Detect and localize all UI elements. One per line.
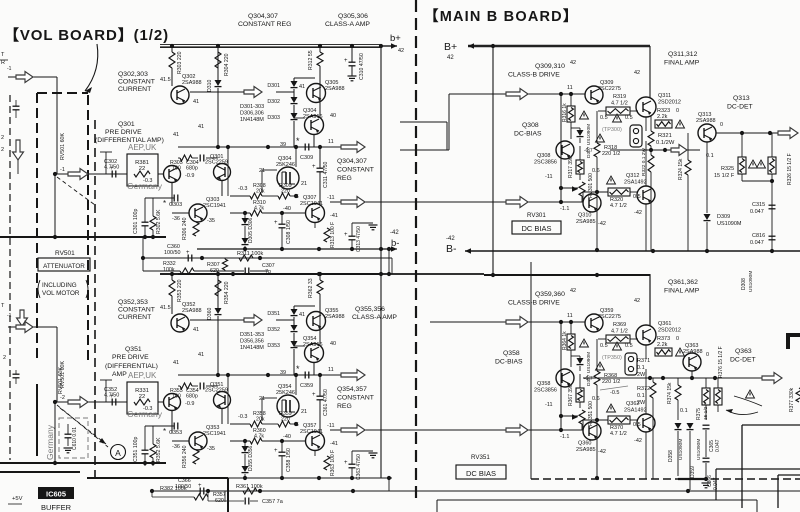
board title MAIN B BOARD — [424, 8, 579, 25]
label -42 B- — [446, 236, 457, 255]
svg-text:CLASS-B DRIVE: CLASS-B DRIVE — [508, 300, 560, 307]
value 0.1 — [706, 153, 714, 159]
value 41 — [193, 327, 199, 333]
label BUFFER — [41, 503, 72, 512]
svg-text:41: 41 — [193, 327, 199, 333]
transistor Q362 — [637, 414, 655, 432]
warning triangle — [746, 390, 755, 398]
transistor Q361 — [636, 325, 656, 345]
value -42 — [634, 210, 642, 216]
junction — [651, 249, 774, 253]
dashed option box — [59, 418, 88, 458]
value 21 — [259, 168, 265, 174]
value 0.5 — [625, 115, 633, 121]
node wiper RV501 — [53, 167, 65, 176]
svg-text:2: 2 — [1, 147, 4, 153]
svg-text:15 1/2 F: 15 1/2 F — [714, 173, 735, 179]
wire block top — [0, 471, 80, 473]
svg-text:+: + — [312, 392, 316, 398]
svg-text:-42: -42 — [598, 221, 606, 227]
potentiometer RV501 60K — [60, 133, 66, 160]
svg-text:100: 100 — [172, 166, 181, 172]
svg-text:220 1/2: 220 1/2 — [602, 151, 620, 157]
svg-text:41.5: 41.5 — [160, 77, 171, 83]
wire lower b- rail — [166, 476, 392, 491]
dashed line RV501 box right — [87, 95, 89, 362]
value 21 — [301, 409, 307, 415]
label Q302 2SA988 — [182, 74, 202, 86]
value 11 — [328, 139, 334, 145]
value 42 — [634, 298, 640, 304]
svg-text:2SA988: 2SA988 — [683, 349, 703, 355]
junction — [713, 376, 717, 380]
svg-text:C309: C309 — [300, 155, 313, 161]
wire — [571, 356, 580, 371]
svg-text:C363 47/50: C363 47/50 — [356, 454, 362, 480]
svg-text:+: + — [344, 232, 348, 238]
svg-text:0.1: 0.1 — [637, 393, 645, 399]
label Q308 2SC3856 — [534, 153, 557, 166]
transistor Q360 — [583, 422, 601, 440]
wire — [145, 198, 153, 238]
resistor R302 5.6K — [150, 209, 162, 234]
svg-text:0.1: 0.1 — [637, 365, 645, 371]
value 11 — [567, 85, 573, 91]
value 41.5 — [160, 77, 171, 83]
svg-text:41: 41 — [299, 312, 305, 318]
svg-text:4.7 1/2: 4.7 1/2 — [611, 101, 628, 107]
signal arrow input — [16, 322, 33, 333]
ground — [369, 225, 378, 230]
pointer arc from title — [85, 44, 98, 93]
wire — [771, 133, 773, 251]
wire — [158, 401, 164, 403]
value -0.3 — [238, 186, 247, 192]
svg-text:42: 42 — [634, 70, 640, 76]
wire — [645, 345, 647, 414]
capacitor C309 — [300, 144, 313, 162]
wire drive input — [430, 321, 585, 323]
resistor R354 220 — [215, 280, 230, 304]
wire — [677, 378, 679, 420]
svg-text:-35: -35 — [207, 446, 215, 452]
signal arrow const reg — [341, 142, 365, 153]
svg-text:0.1/2W: 0.1/2W — [656, 140, 675, 146]
value -42 — [634, 438, 642, 444]
wire — [276, 306, 315, 320]
svg-text:680p: 680p — [186, 394, 198, 400]
svg-text:Q311: Q311 — [658, 93, 671, 99]
resistor R373 2.2k — [655, 336, 672, 356]
label D301-303 D306,306 1N4148M — [240, 104, 264, 123]
wire — [195, 449, 197, 451]
svg-text:2.2k: 2.2k — [657, 114, 668, 120]
wire b- rail — [197, 248, 389, 250]
diode D353 — [267, 341, 297, 349]
IC605 block — [38, 487, 74, 499]
wire row491 — [150, 490, 400, 492]
resistor R371 0.1 2W — [637, 358, 650, 378]
signal arrow input — [16, 72, 33, 83]
label B+ — [444, 41, 457, 61]
svg-text:41: 41 — [173, 132, 179, 138]
svg-text:D310: D310 — [207, 79, 213, 92]
svg-text:R375: R375 — [696, 408, 702, 420]
box corner right inner — [778, 475, 800, 508]
wire — [143, 238, 392, 274]
signal arrow det — [778, 128, 798, 139]
svg-text:0: 0 — [706, 352, 709, 358]
svg-text:A: A — [115, 448, 121, 458]
svg-text:42: 42 — [570, 288, 576, 294]
wire — [598, 338, 638, 340]
transistor Q352 — [171, 314, 189, 332]
wire — [319, 375, 321, 421]
wire — [571, 128, 580, 143]
label Q310 2SA985 — [576, 213, 596, 226]
svg-text:D309: D309 — [717, 214, 730, 220]
svg-text:2SC1941: 2SC1941 — [203, 431, 226, 437]
svg-text:CONSTANT: CONSTANT — [337, 395, 374, 402]
svg-text:AEP,UK: AEP,UK — [128, 143, 157, 152]
value 41 — [198, 124, 204, 130]
wire — [145, 426, 153, 466]
capacitor C302 4.7/50 — [104, 159, 119, 178]
svg-text:41: 41 — [173, 360, 179, 366]
svg-text:0.5: 0.5 — [633, 422, 641, 428]
svg-text:C351 100p: C351 100p — [133, 437, 139, 462]
resistor R307 620 — [207, 259, 228, 274]
value 0.6 — [592, 396, 600, 402]
svg-text:REG: REG — [337, 175, 352, 182]
svg-text:2SC3856: 2SC3856 — [534, 160, 557, 166]
capacitor C308 1/50 — [274, 220, 292, 244]
label S — [295, 194, 299, 200]
label Q301 PRE DRIVE (DIFFERENTIAL AMP) — [95, 121, 164, 144]
label Q352,353 CONSTANT CURRENT — [118, 299, 155, 321]
label Q351 2SC2259 — [205, 382, 228, 394]
svg-text:CONSTANT REG: CONSTANT REG — [238, 21, 291, 28]
warning triangle — [613, 342, 622, 350]
svg-text:D302: D302 — [267, 99, 280, 105]
svg-text:-36: -36 — [172, 444, 180, 450]
svg-text:R371: R371 — [637, 358, 650, 364]
transistor Q312 — [637, 186, 655, 204]
svg-text:C610 0.01: C610 0.01 — [72, 427, 78, 450]
wire — [579, 146, 581, 180]
label Q363 2SA988 — [683, 343, 703, 355]
wire — [172, 410, 189, 441]
svg-text:C313 47/50: C313 47/50 — [356, 226, 362, 252]
label (TP300) — [602, 355, 622, 361]
wire row150 — [610, 149, 700, 151]
svg-text:Q363: Q363 — [735, 348, 752, 355]
label Q357 2SC1941 — [300, 423, 323, 435]
transistor Q304 — [305, 116, 324, 135]
svg-text:-11: -11 — [327, 423, 335, 429]
svg-text:-1: -1 — [60, 167, 65, 173]
svg-text:2SA985: 2SA985 — [576, 447, 596, 453]
resistor R313 100 — [324, 222, 336, 248]
svg-text:41: 41 — [198, 124, 204, 130]
wire — [559, 322, 578, 430]
svg-text:(DIFFERENTIAL): (DIFFERENTIAL) — [105, 363, 158, 370]
wire — [350, 44, 354, 76]
svg-text:Q302,303: Q302,303 — [118, 71, 148, 78]
wire — [280, 211, 284, 250]
black corner mark — [786, 333, 800, 349]
svg-text:R319: R319 — [613, 94, 626, 100]
wire diode ladder — [293, 306, 295, 375]
capacitor C816 0.047 — [750, 233, 776, 246]
value -0.9 — [185, 401, 194, 407]
label ATTENUATOR box — [38, 258, 90, 271]
svg-text:CLASS-A AMP: CLASS-A AMP — [325, 21, 370, 28]
svg-text:C301 100p: C301 100p — [133, 209, 139, 234]
svg-text:RV351: RV351 — [471, 454, 490, 461]
dashed line left 2 — [94, 120, 96, 480]
label Q359 2SC2275 — [598, 308, 621, 320]
diode D358 US1090M — [668, 423, 684, 462]
resistor R321 0.1/2W — [648, 131, 675, 146]
svg-text:0.5: 0.5 — [600, 343, 608, 349]
svg-text:0.5: 0.5 — [600, 115, 608, 121]
connector label 2a — [1, 135, 4, 141]
label Q358 2SC3856 — [534, 381, 557, 394]
resistor R369 4.7 — [606, 322, 630, 343]
svg-text:R362 33: R362 33 — [308, 278, 314, 298]
svg-text:-2: -2 — [60, 395, 65, 401]
value 40 — [330, 113, 336, 119]
svg-text:-0.9: -0.9 — [185, 401, 194, 407]
svg-text:4.7k: 4.7k — [254, 206, 264, 212]
value -0.3 — [238, 414, 247, 420]
value 41 — [299, 312, 305, 318]
potentiometer RV501 60K lower — [58, 367, 64, 394]
diode D359 US1090M — [687, 423, 703, 478]
wire — [207, 409, 222, 441]
svg-text:Q361,362: Q361,362 — [668, 279, 698, 286]
transistor Q355 — [307, 312, 326, 331]
wire — [318, 272, 322, 312]
value 0 — [706, 352, 709, 358]
transistor Q357 — [306, 432, 325, 451]
junction l2 — [150, 489, 262, 493]
wire r332 branch — [143, 258, 268, 271]
svg-text:Q308: Q308 — [537, 153, 550, 159]
diode D355,D356 — [242, 445, 255, 472]
junction — [491, 44, 495, 48]
value 11 — [328, 367, 334, 373]
label Q309 2SC2275 — [598, 80, 621, 92]
label Q361 2SD2012 — [658, 321, 681, 334]
svg-text:VOL MOTOR: VOL MOTOR — [42, 290, 80, 297]
svg-text:2SC2259: 2SC2259 — [205, 160, 228, 166]
wire — [190, 319, 244, 321]
svg-text:AMP: AMP — [112, 371, 127, 378]
svg-text:R306 240: R306 240 — [182, 217, 188, 240]
svg-text:Q313: Q313 — [733, 95, 750, 102]
value -11 — [327, 423, 335, 429]
svg-text:CURRENT: CURRENT — [118, 86, 151, 93]
svg-text:D351-353: D351-353 — [240, 332, 264, 338]
capacitor C353 — [163, 423, 182, 437]
svg-text:b+: b+ — [390, 33, 401, 44]
wire B- rail — [465, 248, 800, 254]
signal arrow down-left — [13, 140, 24, 160]
resistor R381 22 (option box) — [127, 154, 158, 186]
solid line left col bottom — [36, 384, 38, 456]
svg-text:FINAL AMP: FINAL AMP — [664, 288, 700, 295]
svg-text:-42: -42 — [390, 230, 399, 236]
svg-text:+: + — [274, 220, 278, 226]
svg-text:2W: 2W — [637, 372, 646, 378]
diode D357 — [577, 352, 593, 386]
value 40 — [330, 341, 336, 347]
svg-text:(TP350): (TP350) — [602, 355, 622, 361]
resistor R352 5.6K — [150, 437, 162, 462]
resistor R370 4.7 — [608, 416, 630, 437]
svg-text:2SC2275: 2SC2275 — [598, 86, 621, 92]
svg-text:FINAL AMP: FINAL AMP — [664, 60, 700, 67]
wire — [595, 339, 599, 480]
label Q303 2SC1941 — [203, 197, 226, 209]
capacitor C366 0.047 — [703, 458, 720, 490]
value -41 — [330, 213, 338, 219]
value -36 — [172, 216, 180, 222]
transistor Q307 — [306, 204, 325, 223]
svg-text:CONSTANT: CONSTANT — [118, 79, 155, 86]
svg-text:C361 47/50: C361 47/50 — [323, 389, 329, 416]
label Q363 DC-DET — [730, 348, 756, 364]
label Q302,303 CONSTANT CURRENT — [118, 71, 155, 93]
transistor Q305 — [307, 84, 326, 103]
junction — [740, 131, 772, 135]
wiper dashed arrow — [57, 177, 95, 205]
wire — [224, 258, 226, 271]
svg-text:680p: 680p — [186, 166, 198, 172]
svg-text:R377 330k: R377 330k — [789, 387, 795, 412]
capacitor C365 0.047 — [703, 425, 722, 452]
svg-text:11: 11 — [567, 85, 573, 91]
svg-text:0.047: 0.047 — [715, 439, 721, 452]
value 0.5 — [600, 115, 608, 121]
wire — [195, 221, 197, 223]
curve arrow2 — [734, 396, 762, 406]
value 11 — [567, 313, 573, 319]
label Q304,307 CONSTANT REG — [337, 158, 374, 182]
svg-text:11: 11 — [567, 313, 573, 319]
warning triangle — [607, 404, 616, 412]
svg-text:D360: D360 — [207, 307, 213, 320]
wire — [595, 111, 599, 252]
value -11 — [545, 402, 553, 408]
svg-text:42: 42 — [447, 55, 454, 61]
svg-text:D301-303: D301-303 — [240, 104, 264, 110]
wire stub — [400, 94, 449, 150]
ground — [348, 76, 357, 81]
resistor R312 55 — [308, 50, 323, 70]
svg-text:0.5: 0.5 — [625, 115, 633, 121]
wire — [706, 378, 718, 420]
label INCLUDING VOL MOTOR — [38, 280, 88, 298]
resistor R360 4.7k — [250, 428, 266, 444]
svg-text:Q360: Q360 — [578, 441, 591, 447]
svg-text:220 1/2: 220 1/2 — [602, 379, 620, 385]
svg-text:US1090M: US1090M — [678, 439, 684, 460]
wire — [318, 44, 322, 84]
wire block top2 — [87, 478, 228, 512]
svg-text:R: R — [1, 60, 5, 66]
diode D305,D306 — [242, 217, 255, 244]
svg-text:D306,306: D306,306 — [240, 111, 264, 117]
value 0.5 — [633, 422, 641, 428]
value 0 — [720, 122, 723, 128]
svg-text:b-: b- — [391, 238, 399, 249]
ground — [702, 483, 711, 488]
svg-text:0.047: 0.047 — [750, 209, 764, 215]
svg-text:D351: D351 — [267, 311, 280, 317]
svg-text:RV501 60K: RV501 60K — [58, 367, 64, 394]
wire rail to lower — [484, 274, 650, 276]
svg-text:2SD2012: 2SD2012 — [658, 100, 681, 106]
svg-text:C315: C315 — [752, 202, 765, 208]
wire bottom rail — [150, 490, 800, 492]
resistor R303 220 — [169, 51, 183, 74]
capacitor C366 100/50 — [175, 478, 204, 495]
supply arrow b+ — [383, 33, 404, 54]
signal arrow output — [341, 425, 365, 436]
svg-text:PRE DRIVE: PRE DRIVE — [112, 354, 149, 361]
wire — [100, 152, 112, 174]
svg-text:*: * — [163, 199, 166, 208]
junction — [559, 320, 563, 324]
warning triangle — [676, 348, 685, 356]
svg-text:40: 40 — [330, 341, 336, 347]
diode D308 US1090M — [741, 256, 754, 300]
potentiometer RV301 500 — [572, 173, 594, 198]
resistor R309 220 — [278, 183, 292, 199]
wire signal row — [57, 173, 127, 175]
wire — [319, 193, 321, 204]
wire — [583, 420, 638, 430]
value -0.3 — [143, 406, 152, 412]
signal arrow const reg — [341, 370, 365, 381]
resistor R324 15k — [678, 158, 691, 180]
wire — [56, 327, 58, 402]
wiper dashed arrow — [57, 405, 108, 447]
svg-text:0.5: 0.5 — [625, 343, 633, 349]
transistor Q301b — [214, 164, 231, 181]
signal arrow output — [341, 197, 365, 208]
svg-text:R367 390: R367 390 — [568, 384, 574, 406]
wire — [145, 197, 174, 199]
transistor Q363 — [683, 353, 701, 371]
resistor R377 330k — [789, 387, 800, 412]
signal arrow drive — [506, 89, 528, 100]
diode D352 — [267, 325, 297, 333]
value -0.7 — [584, 148, 593, 154]
svg-text:-0.3: -0.3 — [143, 406, 152, 412]
label Q313 DC-DET — [727, 95, 753, 111]
wire — [579, 374, 581, 408]
wire — [54, 174, 56, 237]
svg-text:CLASS-B DRIVE: CLASS-B DRIVE — [508, 72, 560, 79]
svg-text:C311 47/50: C311 47/50 — [323, 161, 329, 188]
svg-text:21: 21 — [301, 181, 307, 187]
svg-text:(DIFFERENTIAL AMP): (DIFFERENTIAL AMP) — [95, 137, 164, 144]
svg-text:21: 21 — [301, 409, 307, 415]
